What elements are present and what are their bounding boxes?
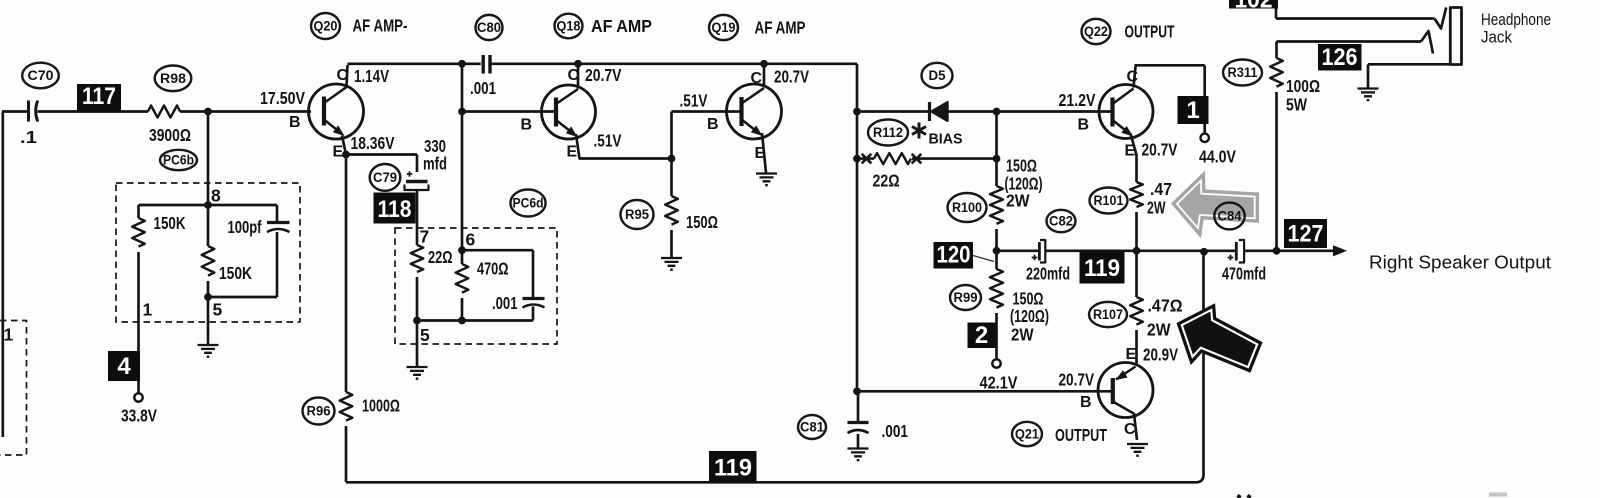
svg-text:117: 117 bbox=[82, 83, 116, 110]
svg-text:C82: C82 bbox=[1049, 214, 1073, 229]
junction rail to bottom loop bbox=[1200, 248, 1208, 256]
wire: C80 node vertical x462 down into module pin6 bbox=[461, 64, 464, 250]
svg-text:PC6d: PC6d bbox=[513, 196, 544, 211]
wire: Q19 collector bbox=[763, 64, 766, 85]
svg-text:33.8V: 33.8V bbox=[121, 406, 157, 426]
svg-text:20.7V: 20.7V bbox=[774, 67, 809, 87]
svg-text:2W: 2W bbox=[1006, 191, 1030, 211]
junction pin 5 node module1 bbox=[204, 293, 212, 301]
svg-text:E: E bbox=[567, 144, 578, 161]
junction R311 rail node bbox=[1273, 247, 1281, 255]
wire: Q18 base bbox=[462, 110, 554, 113]
ref circle Q22 bbox=[1082, 19, 1111, 44]
black arrow callout bbox=[1177, 303, 1263, 373]
wire: module2 node6 horizontal bbox=[462, 249, 533, 252]
svg-text:150Ω: 150Ω bbox=[1006, 156, 1037, 176]
ground module2 pin5 bbox=[407, 367, 428, 379]
terminal 42.1V bbox=[992, 359, 1000, 367]
svg-text:Q19: Q19 bbox=[712, 20, 736, 35]
terminal box 102 top edge cut bbox=[1229, 0, 1278, 14]
wire: Q20 emitter down to R96 and bottom rail bbox=[342, 136, 346, 483]
svg-text:R95: R95 bbox=[625, 207, 649, 222]
junction top rail Q19 collector bbox=[760, 60, 768, 68]
ref circle R98 bbox=[155, 66, 192, 92]
svg-text:mfd: mfd bbox=[423, 154, 447, 174]
capacitor .001 module2 bbox=[523, 297, 545, 300]
ref circle C70 bbox=[22, 63, 59, 89]
svg-text:C81: C81 bbox=[800, 420, 824, 435]
svg-text:150K: 150K bbox=[154, 213, 186, 233]
svg-text:R100: R100 bbox=[952, 200, 982, 215]
svg-text:C: C bbox=[337, 67, 349, 84]
svg-text:470mfd: 470mfd bbox=[1222, 264, 1266, 284]
wire: 470 ohm stems bbox=[461, 250, 464, 320]
svg-text:AF AMP: AF AMP bbox=[755, 18, 806, 38]
svg-text:.1: .1 bbox=[20, 127, 37, 147]
transistor Q21 PNP bbox=[1098, 363, 1153, 418]
dashed module PC6d bbox=[395, 228, 557, 344]
junction C81 / Q21 base node bbox=[853, 387, 861, 395]
ref circle R311 bbox=[1223, 60, 1262, 86]
ref circle D5 bbox=[922, 63, 953, 88]
svg-text:D5: D5 bbox=[929, 68, 946, 83]
terminal box 118 bbox=[374, 193, 416, 224]
svg-text:.47Ω: .47Ω bbox=[1148, 296, 1183, 316]
svg-text:.47: .47 bbox=[1150, 179, 1172, 199]
dashed module PC6b bbox=[116, 183, 300, 322]
wire: 100pf stems bbox=[276, 205, 279, 297]
headphone jack body bbox=[1450, 8, 1461, 65]
dashed module corner bottom-left bbox=[0, 321, 27, 456]
terminal box 2 bbox=[968, 322, 996, 349]
svg-text:Right Speaker Output: Right Speaker Output bbox=[1369, 252, 1551, 273]
wire: .001 cap stems in module2 bbox=[532, 250, 535, 320]
svg-text:B: B bbox=[289, 114, 301, 131]
svg-text:150Ω: 150Ω bbox=[686, 212, 718, 232]
ref circle R101 bbox=[1090, 188, 1128, 214]
capacitor C81 .001 bbox=[848, 421, 869, 424]
wire: Q20 emitter branch to C79 bbox=[346, 155, 417, 173]
wire: node5 to ground bbox=[207, 297, 210, 344]
wire: R311 vertical to output rail bbox=[1275, 42, 1278, 251]
svg-text:7: 7 bbox=[420, 227, 430, 247]
svg-text:2W: 2W bbox=[1147, 320, 1171, 340]
junction bias row right node bbox=[993, 155, 1001, 163]
svg-text:.001: .001 bbox=[882, 421, 909, 441]
wire: main vertical x857 bbox=[856, 64, 859, 392]
capacitor C79 330mfd polarized bbox=[406, 180, 428, 183]
resistor R98 3900 bbox=[148, 106, 180, 118]
junction diode row right node bbox=[993, 108, 1001, 116]
jack ring contact bbox=[1421, 31, 1433, 54]
diode D5 bbox=[928, 102, 931, 121]
wire: R107 stems bbox=[1135, 251, 1138, 364]
resistor R96 1000 bbox=[340, 392, 353, 421]
junction pin 6 node module2 bbox=[458, 246, 466, 254]
ref circle PC6d bbox=[510, 190, 545, 217]
ref circle R96 bbox=[303, 398, 335, 425]
svg-text:Q22: Q22 bbox=[1084, 24, 1108, 39]
transistor Q18 bbox=[542, 85, 596, 140]
ref circle Q19 bbox=[709, 15, 738, 40]
svg-text:6: 6 bbox=[466, 230, 476, 250]
svg-text:118: 118 bbox=[378, 196, 412, 223]
transistor Q20 bbox=[309, 84, 364, 139]
svg-text:100pf: 100pf bbox=[228, 217, 262, 237]
wire: jack sleeve to ground bbox=[1368, 64, 1450, 88]
svg-text:5: 5 bbox=[420, 325, 430, 345]
resistor 22ohm bias with X ends bbox=[874, 153, 911, 164]
svg-text:120: 120 bbox=[937, 242, 971, 269]
svg-text:.51V: .51V bbox=[594, 131, 622, 151]
ref circle R100 bbox=[948, 193, 987, 222]
svg-text:R107: R107 bbox=[1093, 307, 1123, 322]
svg-text:PC6b: PC6b bbox=[163, 153, 194, 168]
wire: Q21 collector to ground bbox=[1134, 414, 1137, 441]
svg-text:(120Ω): (120Ω) bbox=[1010, 306, 1049, 326]
svg-text:R311: R311 bbox=[1228, 65, 1258, 80]
capacitor C70 .1 bbox=[27, 101, 30, 122]
svg-text:C70: C70 bbox=[28, 68, 54, 83]
svg-text:20.7V: 20.7V bbox=[1059, 370, 1095, 390]
junction diode row left node bbox=[853, 108, 861, 116]
ref circle R112 bbox=[868, 120, 908, 146]
svg-text:5: 5 bbox=[213, 300, 223, 320]
svg-text:Q18: Q18 bbox=[557, 19, 581, 34]
svg-text:E: E bbox=[755, 145, 766, 162]
wire: left 150K branch down to pin1 terminal bbox=[137, 205, 140, 393]
svg-text:C: C bbox=[568, 67, 580, 84]
ground R95 bbox=[661, 258, 682, 270]
wire: left edge vertical drop bbox=[1, 112, 4, 438]
wire: headphone ring wire bbox=[1277, 40, 1422, 43]
svg-text:BIAS: BIAS bbox=[929, 131, 963, 148]
wire: node8 vertical from R98 junction bbox=[207, 112, 210, 206]
svg-text:C80: C80 bbox=[477, 20, 501, 35]
svg-text:22Ω: 22Ω bbox=[873, 171, 900, 191]
svg-text:R99: R99 bbox=[954, 290, 978, 305]
svg-text:22Ω: 22Ω bbox=[428, 247, 453, 267]
svg-text:1000Ω: 1000Ω bbox=[362, 396, 400, 416]
svg-text:B: B bbox=[1078, 117, 1090, 134]
svg-text:Jack: Jack bbox=[1481, 29, 1513, 47]
wire: Q20 collector to top rail bbox=[347, 64, 481, 87]
svg-text:B: B bbox=[1080, 394, 1092, 411]
junction top rail C80 left node bbox=[458, 60, 466, 68]
junction R100 R99 output node bbox=[993, 247, 1001, 255]
ground Q21 collector bbox=[1127, 444, 1148, 456]
wire: headphone tip wire from terminal 102 bbox=[1276, 9, 1435, 19]
resistor 470ohm bbox=[456, 264, 469, 293]
wire: Q18 emitter to junction bbox=[576, 134, 672, 159]
resistor R99 bbox=[990, 269, 1003, 308]
ref circle C79 bbox=[370, 164, 401, 191]
svg-text:470Ω: 470Ω bbox=[477, 259, 509, 279]
resistor R107 .47 bbox=[1130, 297, 1143, 325]
svg-text:.51V: .51V bbox=[680, 91, 708, 111]
wire: pin5 node to ground bbox=[416, 321, 419, 367]
wire: diode row left bbox=[857, 110, 930, 113]
svg-text:119: 119 bbox=[714, 455, 752, 482]
svg-text:E: E bbox=[333, 144, 344, 161]
svg-text:42.1V: 42.1V bbox=[980, 373, 1018, 393]
svg-text:Q20: Q20 bbox=[314, 19, 338, 34]
svg-text:8: 8 bbox=[211, 186, 221, 206]
svg-text:1: 1 bbox=[4, 325, 14, 345]
terminal box 4 bbox=[108, 351, 140, 381]
svg-text:C: C bbox=[1124, 421, 1136, 438]
ground C81 bbox=[848, 449, 869, 461]
svg-text:OUTPUT: OUTPUT bbox=[1055, 425, 1107, 445]
svg-text:E: E bbox=[1125, 143, 1136, 160]
svg-text:100Ω: 100Ω bbox=[1286, 76, 1320, 96]
wire: C81 stems bbox=[857, 391, 860, 447]
svg-text:2W: 2W bbox=[1147, 198, 1166, 218]
resistor 150K middle bbox=[202, 246, 215, 276]
capacitor 100pf bbox=[267, 221, 290, 224]
junction pin 5 node module2 bbox=[413, 317, 421, 325]
svg-text:E: E bbox=[1126, 346, 1137, 363]
wire: dashed module node8 horizontal bbox=[139, 204, 278, 207]
wire: diode row right to Q22 base bbox=[947, 110, 1112, 113]
wire: R95 stems bbox=[670, 159, 673, 258]
ref circle Q18 bbox=[555, 14, 583, 39]
terminal box 127 bbox=[1284, 219, 1327, 248]
svg-text:R96: R96 bbox=[307, 404, 331, 419]
junction bias row left node bbox=[853, 155, 861, 163]
svg-text:4: 4 bbox=[117, 353, 131, 380]
ground Q19 emitter bbox=[756, 174, 777, 186]
wire: middle 150K stems bbox=[207, 205, 210, 297]
wire: bottom rail bbox=[346, 475, 1204, 483]
svg-text:Q21: Q21 bbox=[1015, 427, 1039, 442]
capacitor C80 .001 bbox=[482, 55, 485, 74]
wire: vertical x996.5 with R100 R99 stems bbox=[995, 112, 998, 360]
terminal box 119 output rail bbox=[1080, 252, 1125, 284]
capacitor 220mfd polarized bbox=[1038, 242, 1041, 261]
svg-text:2W: 2W bbox=[1011, 325, 1034, 345]
junction Q18 emitter / Q19 base node bbox=[668, 155, 676, 163]
ground node5 module1 bbox=[198, 345, 219, 357]
scan remnant marks bottom edge bbox=[1238, 495, 1250, 498]
resistor R100 bbox=[990, 186, 1003, 224]
gray arrow callout bbox=[1171, 171, 1259, 239]
wire: module2 bottom net bbox=[417, 319, 533, 322]
svg-text:AF AMP: AF AMP bbox=[591, 16, 652, 36]
svg-text:.001: .001 bbox=[470, 78, 496, 98]
svg-text:17.50V: 17.50V bbox=[260, 88, 305, 108]
terminal box 117 bbox=[77, 83, 121, 112]
arrowhead: right speaker output bbox=[1333, 245, 1347, 256]
svg-text:1: 1 bbox=[143, 300, 153, 320]
junction Q18 base node bbox=[458, 108, 466, 116]
ref circle R99 bbox=[950, 285, 981, 310]
svg-text:21.2V: 21.2V bbox=[1059, 90, 1096, 110]
svg-text:.001: .001 bbox=[492, 293, 518, 313]
svg-text:2: 2 bbox=[975, 322, 988, 349]
capacitor 470mfd polarized bbox=[1235, 242, 1238, 261]
wire: top rail C80 to corner x857 bbox=[491, 62, 857, 65]
wire: C70 to 117 to R98 to Q20 base bbox=[38, 110, 312, 113]
junction Q20 emitter node bbox=[342, 151, 350, 159]
svg-text:44.0V: 44.0V bbox=[1199, 147, 1236, 167]
junction R101 R107 output node bbox=[1133, 247, 1141, 255]
wire: Q21 base row bbox=[857, 390, 1111, 393]
terminal box 119 bottom rail bbox=[709, 451, 757, 483]
junction Q20 base / R98 node bbox=[204, 108, 212, 116]
resistor R101 .47 bbox=[1130, 182, 1143, 207]
terminal box 126 bbox=[1318, 44, 1362, 71]
wire: bias resistor row bbox=[857, 157, 997, 160]
ref circle Q21 bbox=[1012, 422, 1042, 446]
svg-text:20.7V: 20.7V bbox=[585, 65, 622, 85]
svg-text:18.36V: 18.36V bbox=[351, 133, 395, 153]
svg-text:3900Ω: 3900Ω bbox=[149, 125, 191, 145]
svg-text:126: 126 bbox=[1322, 44, 1358, 71]
terminal box 120 bbox=[934, 242, 974, 269]
svg-text:5W: 5W bbox=[1286, 95, 1307, 115]
svg-text:R98: R98 bbox=[160, 71, 187, 86]
ground headphone jack bbox=[1358, 89, 1379, 101]
svg-text:127: 127 bbox=[1288, 221, 1324, 248]
wire: output rail y250.8 bbox=[997, 249, 1336, 252]
svg-text:20.9V: 20.9V bbox=[1143, 345, 1178, 365]
svg-text:C84: C84 bbox=[1218, 209, 1242, 224]
transistor Q19 bbox=[727, 84, 782, 139]
ref circle R95 bbox=[621, 200, 654, 229]
junction 470ohm bottom node bbox=[458, 317, 466, 325]
terminal box 1 bbox=[1178, 96, 1209, 124]
wire: Q22 collector loop to terminal bbox=[1134, 65, 1205, 133]
wire: R101 bottom to rail bbox=[1135, 212, 1138, 251]
svg-text:Headphone: Headphone bbox=[1481, 11, 1551, 29]
ref circle R107 bbox=[1089, 302, 1127, 327]
resistor 22ohm module2 bbox=[411, 245, 424, 272]
svg-text:OUTPUT: OUTPUT bbox=[1125, 22, 1175, 42]
wire: Q22 emitter to R101 bbox=[1131, 134, 1137, 183]
ref circle C80 bbox=[476, 15, 503, 40]
wire: C79 to module pin7, 22ohm stems bbox=[416, 191, 419, 321]
terminal 44.0V bbox=[1201, 134, 1209, 142]
jack tip contact bbox=[1435, 8, 1447, 29]
svg-text:1: 1 bbox=[1186, 97, 1199, 124]
wire: right vertical of bottom loop bbox=[1202, 252, 1205, 475]
resistor R95 150 bbox=[665, 196, 678, 225]
svg-text:119: 119 bbox=[1084, 255, 1120, 282]
wire: Q19 emitter to ground bbox=[762, 133, 766, 173]
ref circle Q20 bbox=[311, 13, 340, 39]
svg-text:C: C bbox=[751, 70, 763, 87]
svg-text:B: B bbox=[521, 117, 533, 134]
terminal 33.8V bbox=[134, 393, 142, 401]
svg-text:C: C bbox=[1127, 69, 1139, 86]
junction pin 8 node bbox=[204, 201, 212, 209]
svg-text:20.7V: 20.7V bbox=[1142, 140, 1178, 160]
svg-text:1.14V: 1.14V bbox=[354, 66, 389, 86]
ref circle C82 bbox=[1047, 210, 1076, 232]
resistor R311 100 bbox=[1270, 58, 1283, 87]
svg-text:150K: 150K bbox=[219, 263, 252, 283]
wire: Q18 collector bbox=[577, 64, 580, 89]
ref circle C81 bbox=[798, 415, 826, 439]
svg-text:B: B bbox=[707, 116, 719, 133]
svg-text:R112: R112 bbox=[873, 125, 903, 140]
asterisk bbox=[912, 123, 926, 139]
svg-text:AF AMP-: AF AMP- bbox=[353, 16, 408, 36]
wire: left input to C70 bbox=[2, 110, 27, 113]
wire: node5 horizontal bbox=[208, 296, 277, 299]
ref circle C84 bbox=[1214, 203, 1244, 230]
transistor Q22 bbox=[1099, 85, 1153, 140]
svg-text:R101: R101 bbox=[1094, 193, 1124, 208]
junction top rail Q18 collector bbox=[574, 60, 582, 68]
svg-text:C79: C79 bbox=[373, 170, 397, 185]
leader line 120 box bbox=[973, 256, 994, 262]
wire: Q19 base to emitter-row junction bbox=[670, 112, 673, 159]
svg-text:220mfd: 220mfd bbox=[1026, 264, 1070, 284]
wire: Q19 base bbox=[672, 110, 741, 113]
ref circle PC6b bbox=[160, 150, 197, 170]
resistor 150K left bbox=[132, 218, 145, 247]
